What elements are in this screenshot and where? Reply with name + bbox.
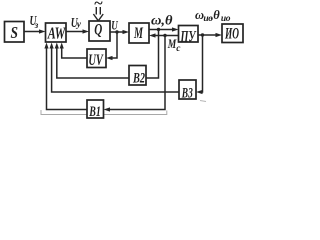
block B1 (87, 100, 104, 118)
block UV (87, 49, 106, 68)
wire Mc from PU to M (153, 35, 179, 37)
svg-text:з: з (34, 20, 39, 30)
junction dot omega-theta node (157, 28, 160, 31)
svg-text:ИО: ИО (224, 26, 239, 43)
block Q (89, 21, 110, 41)
svg-text:с: с (176, 44, 181, 54)
svg-text:ω,θ: ω,θ (151, 13, 173, 28)
wire S to AW (24, 31, 42, 33)
svg-text:~: ~ (94, 0, 103, 12)
junction dot Mc node (163, 34, 166, 37)
svg-text:S: S (10, 23, 18, 42)
svg-text:UV: UV (88, 52, 104, 69)
arrowhead into M (U) (123, 30, 130, 34)
arrowhead into AW (39, 29, 46, 33)
svg-text:M: M (133, 25, 143, 42)
junction dot U node (115, 30, 118, 33)
disturbance hollow arrow into Q (93, 7, 103, 21)
AW feedback arrowhead 4 (60, 43, 64, 49)
svg-text:M: M (167, 36, 177, 51)
block B3 (179, 80, 196, 99)
wire omega-io riser to B3 (200, 35, 203, 92)
AW feedback arrowhead 1 (44, 43, 48, 49)
svg-text:у: у (76, 20, 82, 30)
wire PU to IO (198, 34, 219, 36)
wire B3 output to AW (52, 47, 179, 92)
junction dot omega-io node (201, 33, 204, 36)
svg-text:U: U (111, 18, 118, 33)
wire B1 output to AW (47, 47, 88, 110)
arrowhead into IO (216, 33, 223, 37)
svg-text:В1: В1 (89, 104, 101, 120)
svg-text:В3: В3 (181, 86, 193, 102)
arrowhead into PU (172, 27, 179, 31)
wire M to PU (149, 29, 175, 31)
AW feedback arrowhead 2 (50, 43, 54, 49)
arrowhead into B3 (196, 90, 203, 94)
wire UV output to AW (62, 47, 87, 58)
wire Q to M (110, 31, 126, 33)
faint mark under B3 (200, 101, 206, 102)
block PU (179, 26, 199, 43)
svg-text:Q: Q (94, 22, 102, 39)
wire Mc riser to B1 (108, 36, 166, 110)
svg-text:ио: ио (221, 14, 231, 24)
arrowhead into Q (83, 29, 90, 33)
block B2 (129, 66, 146, 86)
wire B2 output to AW (57, 47, 129, 78)
svg-text:ПУ: ПУ (180, 28, 197, 45)
arrowhead into M (Mc) (149, 33, 156, 37)
svg-text:В2: В2 (132, 71, 145, 87)
block S (5, 22, 25, 43)
wire AW to Q (66, 31, 86, 33)
block IO (222, 24, 243, 43)
block AW (46, 23, 67, 42)
svg-text:AW: AW (47, 24, 67, 43)
svg-text:θ: θ (213, 8, 220, 22)
arrowhead into B1 (104, 107, 111, 111)
arrowhead into UV (106, 56, 113, 60)
AW feedback arrowhead 3 (55, 43, 59, 49)
wire omega-theta riser to B2 (146, 30, 159, 79)
ghost loop faint line (41, 110, 167, 115)
block M (129, 23, 149, 43)
wire U node riser to UV (110, 32, 118, 58)
